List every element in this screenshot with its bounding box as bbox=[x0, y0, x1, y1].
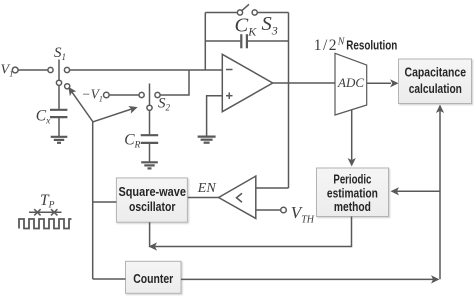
switch S2 bbox=[139, 84, 171, 113]
wire bbox=[149, 217, 352, 251]
wire bbox=[93, 278, 126, 280]
svg-text:S1: S1 bbox=[54, 45, 66, 62]
svg-text:−V1: −V1 bbox=[82, 87, 103, 104]
wire bbox=[207, 96, 223, 136]
svg-text:Square-wave: Square-wave bbox=[118, 184, 186, 199]
svg-text:calculation: calculation bbox=[409, 81, 462, 96]
label resolution bbox=[314, 37, 398, 55]
input VTH bbox=[281, 203, 315, 226]
svg-text:method: method bbox=[334, 199, 371, 214]
op-amp U1 bbox=[222, 54, 272, 111]
input V1 bbox=[1, 63, 19, 79]
svg-text:N: N bbox=[337, 37, 346, 48]
ADC U2 bbox=[335, 53, 367, 115]
wire bbox=[109, 94, 139, 96]
svg-text:EN: EN bbox=[197, 181, 217, 196]
wire bbox=[93, 106, 138, 122]
ground bbox=[51, 137, 68, 143]
wire bbox=[181, 275, 440, 283]
switch S3 bbox=[237, 4, 277, 37]
wire bbox=[160, 70, 189, 95]
block periodic estimation method bbox=[317, 168, 389, 217]
wire bbox=[256, 187, 289, 189]
block square-wave oscillator bbox=[116, 178, 187, 222]
svg-text:oscillator: oscillator bbox=[129, 199, 175, 214]
period marker bbox=[29, 209, 62, 215]
wire bbox=[93, 201, 117, 203]
wire bbox=[70, 69, 223, 71]
wire bbox=[436, 105, 444, 280]
svg-text:Counter: Counter bbox=[133, 271, 173, 286]
wire bbox=[348, 110, 356, 167]
svg-text:Periodic: Periodic bbox=[333, 172, 371, 187]
wire bbox=[205, 12, 237, 14]
svg-text:CR: CR bbox=[124, 132, 140, 151]
wire bbox=[18, 69, 48, 71]
svg-text:S3: S3 bbox=[262, 13, 278, 38]
svg-text:Capacitance: Capacitance bbox=[405, 65, 467, 80]
wire bbox=[288, 13, 290, 189]
svg-text:VTH: VTH bbox=[291, 203, 315, 226]
svg-text:Cx: Cx bbox=[36, 108, 51, 127]
svg-text:Resolution: Resolution bbox=[346, 38, 397, 53]
wire bbox=[273, 82, 335, 84]
wire bbox=[149, 222, 151, 247]
wire bbox=[204, 13, 206, 71]
wire bbox=[391, 187, 441, 195]
svg-text:1 / 2: 1 / 2 bbox=[314, 37, 336, 54]
wire bbox=[257, 12, 288, 14]
svg-text:ADC: ADC bbox=[337, 75, 364, 90]
capacitor CR bbox=[124, 110, 158, 161]
ground bbox=[141, 162, 158, 168]
switch S1 bbox=[48, 45, 70, 89]
waveform bbox=[19, 219, 72, 229]
wire bbox=[92, 121, 94, 279]
svg-text:V1: V1 bbox=[1, 63, 14, 79]
ground bbox=[198, 137, 216, 143]
svg-text:TP: TP bbox=[40, 192, 55, 211]
svg-text:CK: CK bbox=[235, 15, 258, 39]
comparator U3 bbox=[219, 176, 256, 218]
capacitor Cx bbox=[36, 85, 68, 136]
wire bbox=[256, 209, 281, 211]
input -V1 bbox=[82, 87, 110, 104]
wire bbox=[367, 79, 399, 87]
capacitor CK bbox=[205, 15, 288, 49]
svg-text:S2: S2 bbox=[158, 96, 171, 113]
block counter bbox=[126, 261, 182, 293]
wire bbox=[68, 87, 92, 122]
block capacitance calculation bbox=[399, 59, 472, 104]
wire bbox=[187, 197, 218, 199]
